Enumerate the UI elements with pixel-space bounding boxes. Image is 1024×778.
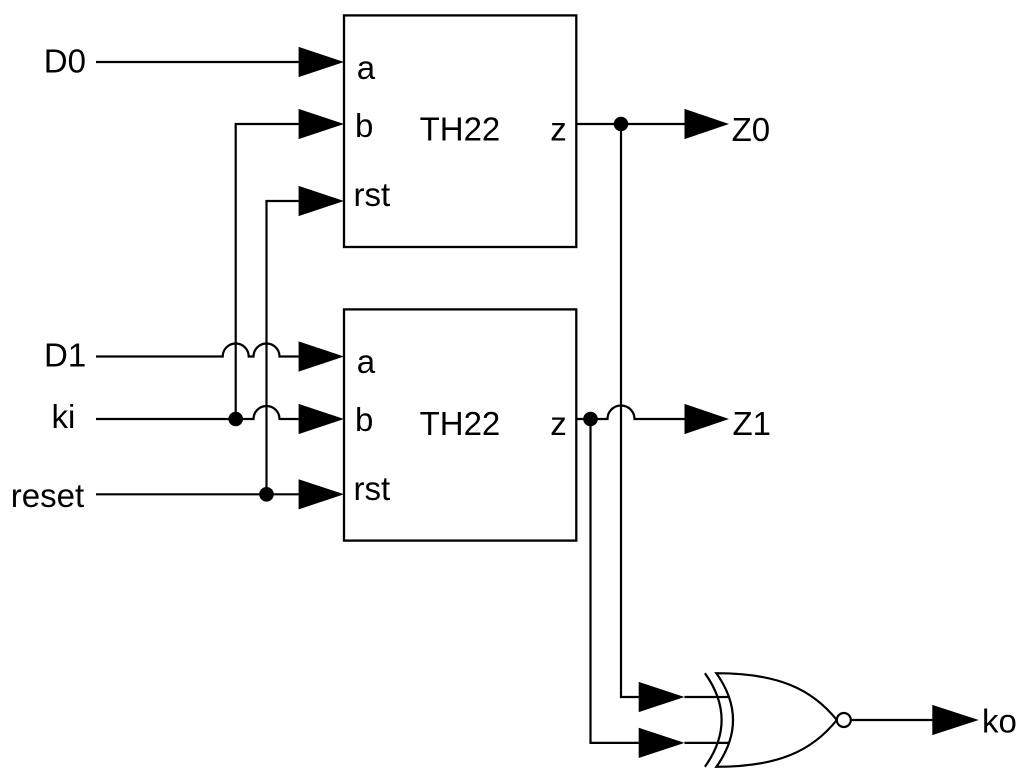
svg-text:TH22: TH22 (420, 405, 501, 442)
svg-text:reset: reset (11, 477, 84, 514)
wire ki-branch to U1.b (vertical x=235.7 up from ki junction, then right) (236, 124, 299, 419)
wire reset to U2.rst (96, 493, 299, 495)
gate U1 TH22 (top block) (344, 15, 576, 247)
gate U3 XNOR input arc (705, 673, 722, 767)
arrow into U2.b (299, 404, 344, 434)
svg-text:b: b (355, 107, 373, 144)
svg-text:z: z (550, 405, 567, 442)
svg-text:rst: rst (354, 176, 391, 213)
wire D1 to U2.a (with two hops over verticals x=235.7 and x=266.5) (96, 344, 299, 357)
svg-text:ki: ki (52, 398, 76, 435)
svg-text:Z0: Z0 (732, 111, 771, 148)
wire stub XOR bottom input (685, 742, 730, 744)
junction dot reset / U1.rst branch (259, 487, 274, 502)
svg-text:b: b (355, 401, 373, 438)
wire stub XOR top input (685, 696, 730, 698)
wire reset-branch to U1.rst (vertical x=266.5 up from reset junction, then right) (267, 201, 299, 494)
svg-text:rst: rst (354, 470, 391, 507)
gate U3 XNOR body (716, 673, 836, 767)
junction dot Z0 node (614, 117, 629, 132)
arrow into U1.b (299, 109, 344, 139)
wire Z1 node down to XOR bottom input (591, 419, 639, 743)
svg-text:D1: D1 (44, 336, 86, 373)
arrow into U2.a (299, 341, 344, 371)
arrow into XOR top input (639, 682, 685, 712)
svg-text:z: z (550, 111, 567, 148)
svg-text:ko: ko (982, 703, 1017, 740)
arrow into U1.rst (299, 186, 344, 216)
wire D0 to U1.a (96, 61, 299, 63)
svg-text:TH22: TH22 (420, 111, 501, 148)
gate U2 TH22 (bottom block) (344, 309, 576, 540)
gate U3 output bubble (837, 713, 851, 727)
wire Z0 node down to XOR top input (621, 124, 639, 697)
arrow out to Z0 (685, 109, 730, 139)
arrow into U2.rst (299, 479, 344, 509)
arrow out to ko (932, 705, 978, 735)
wire U1.z to Z0 (576, 123, 684, 125)
arrow out to Z1 (685, 404, 730, 434)
svg-text:a: a (357, 49, 376, 86)
svg-text:a: a (357, 343, 376, 380)
svg-text:Z1: Z1 (733, 405, 772, 442)
junction dot ki / U1.b branch (228, 412, 243, 427)
wire U2.z to Z1 (hop over vertical x=621) (576, 406, 684, 420)
wire ki to U2.b (hop over vertical x=266.5) (96, 406, 299, 419)
arrow into XOR bottom input (639, 728, 685, 758)
svg-text:D0: D0 (44, 43, 86, 80)
wire U3 output to ko (851, 719, 933, 721)
arrow into U1.a (299, 47, 344, 77)
junction dot Z1 node (583, 412, 598, 427)
